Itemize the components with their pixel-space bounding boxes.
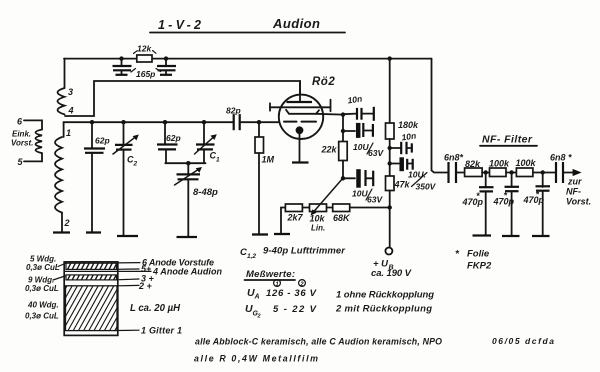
svg-text:8-48p: 8-48p (193, 187, 218, 198)
wire NF feed drop x=433.5 (432, 59, 448, 173)
terminal 5 (18, 153, 43, 167)
resistor 1M grid leak (255, 120, 275, 235)
svg-text:NF- Filter: NF- Filter (482, 134, 533, 146)
wire anode line y=81 (65, 81, 300, 116)
svg-text:*: * (536, 190, 540, 200)
label Folie FKP2 (455, 249, 492, 272)
wire left riser to coil tap3 (64, 59, 66, 88)
svg-text:2: 2 (299, 282, 304, 288)
tube Ro2 envelope (279, 76, 336, 139)
svg-text:alle Abblock-C keramisch, alle: alle Abblock-C keramisch, alle C Audion … (195, 337, 442, 347)
svg-text:FKP2: FKP2 (467, 261, 492, 272)
svg-text:1: 1 (216, 157, 220, 164)
capacitor 6n8 no.1 (444, 153, 465, 184)
ground 1M (252, 233, 268, 235)
svg-text:68K: 68K (333, 213, 351, 223)
svg-text:2 +: 2 + (138, 281, 153, 291)
svg-text:1: 1 (275, 282, 279, 288)
svg-text:6n8*: 6n8* (444, 153, 464, 163)
capacitor 62p no.1 (84, 120, 110, 233)
capacitor 470p no.2 (493, 173, 520, 237)
label C12 Lufttrimmer (240, 246, 346, 261)
coil former diagram (64, 262, 118, 336)
svg-text:100k: 100k (516, 158, 537, 168)
capacitor 165p right (157, 56, 176, 74)
title 1-V-2 (158, 18, 201, 32)
svg-text:1M: 1M (262, 155, 275, 165)
inductor L3-4 feedback winding (58, 87, 74, 116)
winding band 6-5 hatched (63, 263, 117, 269)
svg-text:Vorst.: Vorst. (566, 197, 591, 207)
svg-text:10k: 10k (310, 214, 326, 224)
svg-text:6: 6 (17, 117, 23, 127)
resistor 12k (134, 44, 157, 63)
svg-text:62p: 62p (95, 136, 110, 146)
svg-text:0,3ø CuL: 0,3ø CuL (26, 263, 60, 272)
capacitor 470p no.3 (523, 173, 551, 237)
svg-text:2 mit Rückkopplung: 2 mit Rückkopplung (335, 304, 432, 315)
svg-text:4 Anode Audion: 4 Anode Audion (152, 267, 223, 277)
svg-text:Meßwerte:: Meßwerte: (246, 269, 295, 280)
svg-text:350V: 350V (416, 182, 437, 192)
svg-text:63V: 63V (368, 148, 384, 158)
ground 470p no.3 (532, 235, 550, 237)
svg-text:10n: 10n (401, 131, 417, 143)
wire grid bus y=122.2 (64, 121, 233, 123)
node NF3 (541, 170, 545, 174)
tap 6 (118, 258, 214, 268)
title underline (150, 32, 345, 34)
svg-text:A: A (254, 294, 260, 301)
wire top bus y=58.6 (64, 58, 432, 60)
svg-text:C: C (240, 247, 247, 258)
svg-text:5+: 5+ (141, 264, 152, 274)
svg-text:82p: 82p (226, 106, 241, 116)
svg-text:12k: 12k (137, 44, 152, 54)
ground trimmer (177, 236, 198, 238)
svg-text:470p: 470p (462, 197, 484, 207)
ground coil (53, 231, 70, 233)
tube grid g2 line with end ticks (270, 100, 331, 112)
svg-text:*: * (504, 191, 508, 201)
tap 3 (117, 274, 155, 284)
svg-text:10U.: 10U. (408, 170, 426, 180)
svg-text:1 ohne Rückkopplung: 1 ohne Rückkopplung (336, 290, 434, 301)
capacitor 62p no.2 (157, 120, 181, 163)
inductor antenna coupling coil (36, 130, 43, 154)
svg-text:Eink.: Eink. (12, 130, 31, 139)
capacitor 165p left (113, 56, 132, 74)
ground cathode (292, 161, 309, 163)
svg-text:5: 5 (18, 157, 24, 167)
wire regen pot row y=207.5 (281, 208, 390, 235)
svg-text:126 - 36 V: 126 - 36 V (266, 288, 317, 299)
svg-text:1-V-2: 1-V-2 (158, 18, 201, 32)
svg-text:10n: 10n (347, 94, 363, 106)
svg-text:1: 1 (66, 128, 71, 138)
resistor 100k no.2 (516, 158, 556, 177)
svg-text:2: 2 (64, 218, 70, 228)
svg-text:47k: 47k (394, 180, 411, 190)
svg-text:Vorst.: Vorst. (11, 139, 33, 148)
wire cathode to rail (316, 113, 343, 116)
svg-text:470p: 470p (523, 195, 545, 205)
tube heater dot (296, 126, 304, 162)
resistor 100k no.1 (489, 159, 516, 177)
svg-text:2: 2 (133, 161, 138, 168)
ground C2 (117, 235, 138, 237)
winding band 4-3 hatched (63, 271, 118, 280)
capacitor 10n no.2 (390, 131, 417, 155)
svg-text:Folie: Folie (467, 249, 490, 260)
label winding 40Wdg (25, 301, 59, 321)
svg-text:alle R 0,4W Metallfilm: alle R 0,4W Metallfilm (194, 354, 318, 364)
svg-text:3: 3 (68, 87, 73, 97)
node marker 2 circled (299, 280, 306, 288)
wire bus down to coil 1 (63, 122, 65, 137)
svg-text:2k7: 2k7 (287, 213, 304, 223)
svg-text:zur: zur (567, 177, 582, 187)
capacitor 10u63v no.2 electrolytic (343, 169, 383, 204)
wire B+ rail x=389.7 (388, 56, 392, 123)
node cathode filter junction (341, 176, 345, 180)
tube cathode bracket (286, 110, 319, 114)
resistor 82k (465, 159, 490, 177)
label UA measurement (247, 287, 317, 301)
svg-text:180k: 180k (398, 120, 419, 130)
potentiometer 10k Lin. (310, 180, 342, 233)
capacitor 10n no.1 (343, 94, 374, 121)
label UG2 measurement (245, 303, 317, 320)
title Audion (272, 16, 320, 31)
svg-text:165p: 165p (136, 69, 155, 79)
svg-text:06/05 dcfda: 06/05 dcfda (492, 336, 554, 346)
svg-text:6n8 *: 6n8 * (550, 153, 572, 163)
resistor 180k (386, 120, 420, 176)
node marker 1 circled (274, 280, 281, 288)
inductor L1-2 grid winding (55, 128, 71, 232)
tap 2 (117, 281, 153, 291)
svg-text:Lin.: Lin. (311, 224, 325, 233)
ground 470p no.1 (473, 234, 492, 236)
ground pot row (274, 233, 290, 235)
svg-text:L ca. 20 µH: L ca. 20 µH (130, 303, 181, 314)
resistor 47k (386, 176, 411, 247)
svg-text:10U: 10U (353, 142, 369, 152)
resistor 68K (333, 204, 351, 223)
capacitor 10u350v electrolytic (390, 157, 437, 191)
svg-text:0,3ø CuL: 0,3ø CuL (25, 312, 59, 321)
capacitor 8-48p trimmer (175, 161, 219, 237)
resistor 2k7 (285, 204, 303, 223)
svg-text:82k: 82k (465, 159, 481, 169)
svg-text:4: 4 (68, 106, 74, 116)
tap 4 (118, 267, 223, 277)
svg-text:*: * (476, 191, 480, 201)
label Eink. Vorst. (11, 130, 33, 148)
ground 470p no.2 (502, 235, 520, 237)
svg-text:2: 2 (257, 314, 261, 320)
label winding 9Wdg (25, 276, 65, 294)
node anode feed (388, 161, 392, 165)
capacitor C2 variable (113, 120, 139, 236)
svg-text:63V: 63V (367, 195, 383, 205)
tap 1 (117, 326, 182, 336)
svg-text:22k: 22k (321, 145, 338, 155)
label winding 5Wdg (26, 255, 65, 273)
svg-text:*: * (455, 249, 460, 260)
svg-text:1,2: 1,2 (247, 253, 256, 260)
svg-text:1 Gitter 1: 1 Gitter 1 (141, 326, 182, 336)
ground 62p no.1 (86, 231, 101, 233)
node NF1 (484, 170, 488, 174)
tube grid g1 dashed (284, 121, 316, 123)
label 165p (131, 69, 161, 80)
terminal +UB (371, 248, 412, 280)
svg-text:5 - 22 V: 5 - 22 V (273, 304, 317, 315)
svg-text:NF-: NF- (566, 187, 581, 197)
label Messwerte (245, 269, 296, 280)
capacitor 6n8 no.2 (550, 153, 572, 184)
svg-text:Rö2: Rö2 (312, 76, 335, 88)
capacitor 10u63v no.1 electrolytic (343, 123, 384, 158)
tap 5 (117, 264, 153, 274)
label NF-Filter (480, 134, 537, 146)
wire C1/62p bottom link (165, 162, 205, 164)
node g2 feed (388, 146, 392, 150)
svg-text:0,3ø CuL: 0,3ø CuL (25, 284, 59, 293)
svg-text:Audion: Audion (272, 16, 320, 31)
tube anode (287, 81, 313, 102)
winding band 2-1 hatched (42, 286, 140, 331)
terminal 6 antenna input (17, 117, 42, 130)
wire output arrow zur NF-Verst. (563, 169, 591, 207)
capacitor C1 variable (195, 120, 221, 164)
capacitor 470p no.1 (462, 173, 494, 236)
svg-text:100k: 100k (489, 159, 510, 169)
capacitor 82p coupling (226, 106, 241, 131)
svg-text:ca. 190 V: ca. 190 V (371, 268, 412, 279)
resistor 22k (321, 142, 348, 179)
svg-text:40 Wdg.: 40 Wdg. (27, 301, 59, 310)
node NF2 (509, 170, 513, 174)
svg-text:9-40p Lufttrimmer: 9-40p Lufttrimmer (263, 246, 346, 257)
svg-text:10U: 10U (352, 189, 368, 199)
wire screen rail x=343 (341, 112, 345, 141)
svg-text:62p: 62p (166, 133, 181, 143)
